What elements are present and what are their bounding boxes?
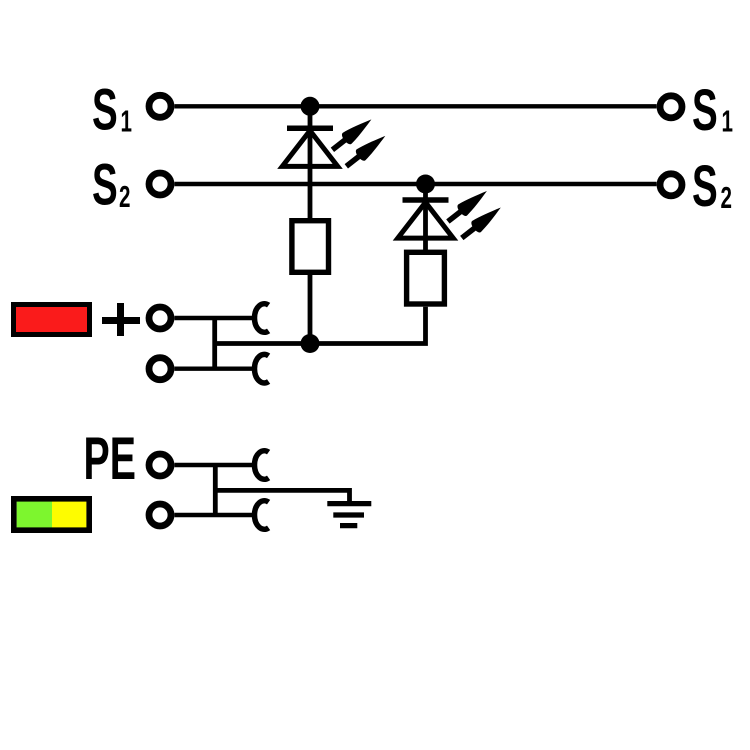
wire plus rail [215, 341, 310, 346]
terminal circle PE upper [149, 454, 171, 476]
svg-text:S: S [692, 154, 718, 219]
label S2 right [692, 154, 732, 219]
green-yellow indicator marker [14, 499, 89, 530]
svg-text:2: 2 [119, 179, 130, 214]
label S1 right [692, 78, 733, 143]
wire R1 to plus rail [308, 275, 313, 344]
wire plus lower [174, 367, 255, 371]
ground symbol [327, 504, 371, 526]
wire S1 junction down through LED D1 to resistor R1 [308, 106, 313, 218]
terminal circle S2 right [660, 174, 682, 196]
wire S1 rail [174, 104, 656, 108]
label S2 left [92, 153, 130, 218]
LED D2 [398, 185, 505, 243]
node junction S2/LED D2 [416, 175, 435, 194]
LED D1 [282, 114, 389, 172]
terminal circle plus lower [149, 358, 171, 380]
terminal circle PE lower [149, 504, 171, 526]
terminal circle S1 left [149, 95, 171, 117]
wire plus tie bar [212, 318, 217, 369]
label plus [102, 303, 140, 336]
svg-text:PE: PE [84, 425, 136, 492]
node junction plus rail [301, 334, 320, 353]
wire R2 down and left to plus rail [310, 307, 426, 344]
clamp contact PE upper [255, 451, 269, 480]
terminal circle S2 left [149, 173, 171, 195]
clamp contact plus lower [255, 354, 269, 383]
label S1 left [92, 78, 132, 143]
svg-text:1: 1 [121, 103, 132, 138]
resistor R1 [292, 221, 329, 273]
wire S2 junction down through LED D2 to resistor R2 [423, 184, 428, 250]
wire PE upper [174, 463, 255, 467]
svg-text:2: 2 [721, 180, 732, 215]
resistor R2 [407, 252, 445, 304]
wire plus upper [174, 316, 255, 320]
wire PE tie bar [213, 465, 218, 515]
svg-text:S: S [692, 78, 718, 143]
svg-text:S: S [92, 153, 118, 218]
wire PE to ground [215, 490, 349, 503]
terminal circle plus upper [149, 307, 171, 329]
svg-text:S: S [92, 78, 118, 143]
terminal circle S1 right [660, 96, 682, 118]
wire S2 rail [174, 182, 656, 186]
svg-text:1: 1 [722, 103, 733, 138]
clamp contact plus upper [255, 304, 269, 333]
node junction S1/LED D1 [301, 97, 320, 116]
red indicator marker [14, 305, 90, 335]
clamp contact PE lower [255, 501, 269, 530]
wire PE lower [174, 513, 255, 517]
